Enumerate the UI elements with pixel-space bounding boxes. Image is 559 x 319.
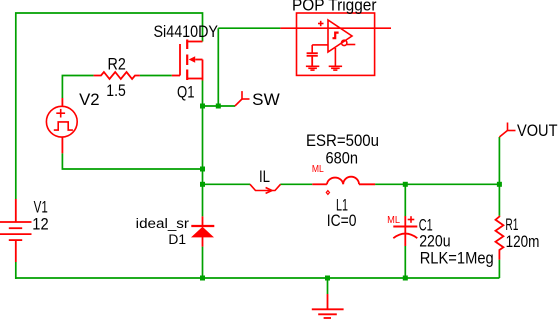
svg-text:ML: ML	[387, 215, 400, 226]
svg-text:ESR=500u: ESR=500u	[306, 131, 379, 150]
probe VOUT	[499, 123, 515, 138]
svg-text:120m: 120m	[506, 232, 540, 251]
wire diode bottom	[202, 247, 204, 278]
wire POP through line	[280, 27, 391, 29]
svg-text:ideal_sr: ideal_sr	[136, 216, 190, 232]
ground POP left	[306, 66, 319, 70]
node ground junction	[325, 276, 330, 281]
resistor R1	[496, 216, 504, 260]
voltage source V2	[46, 98, 77, 153]
ground POP comparator	[329, 48, 342, 70]
current probe IL	[250, 184, 281, 193]
node SW junction	[200, 104, 205, 109]
probe SW	[235, 91, 250, 106]
diode D1	[191, 216, 214, 246]
svg-text:1.5: 1.5	[106, 81, 126, 100]
wire V1 bottom to rail	[15, 262, 17, 279]
wire C1 bottom	[404, 246, 406, 278]
svg-text:ML: ML	[312, 164, 324, 175]
wire R1 bottom	[498, 260, 500, 278]
svg-text:V2: V2	[79, 90, 100, 109]
capacitor C1	[393, 216, 417, 246]
svg-text:IL: IL	[259, 167, 270, 186]
svg-text:R2: R2	[108, 54, 126, 73]
node C1 bottom junction	[403, 276, 408, 281]
node VOUT junction	[497, 182, 502, 187]
wire V2 bottom return	[62, 153, 202, 169]
wire top rail	[16, 13, 203, 199]
inductor L1	[312, 177, 375, 195]
svg-text:SW: SW	[252, 90, 280, 109]
node POP tap junction	[216, 104, 221, 109]
wire rail right	[375, 183, 499, 185]
wire C1 top	[404, 184, 406, 216]
node C1 top junction	[403, 182, 408, 187]
node diode bottom junction	[200, 276, 205, 281]
wire IL rail left	[203, 183, 251, 185]
svg-text:RLK=1Meg: RLK=1Meg	[420, 248, 494, 267]
transistor Q1	[172, 40, 203, 81]
svg-text:Q1: Q1	[177, 82, 195, 101]
op-amp U1 comparator	[312, 20, 355, 53]
wire Q1 source column down to diode	[202, 81, 204, 217]
svg-text:12: 12	[32, 215, 48, 234]
capacitor POP ref cell	[307, 53, 318, 66]
ground main	[312, 294, 344, 318]
node V2 return junction	[200, 167, 205, 172]
wire bottom rail	[16, 277, 500, 279]
svg-text:D1: D1	[168, 232, 186, 248]
node IL rail junction	[200, 182, 205, 187]
wire POP drop	[217, 28, 219, 106]
svg-text:VOUT: VOUT	[517, 121, 558, 140]
resistor R2	[94, 72, 140, 79]
op-amp POP trigger box	[297, 13, 375, 75]
battery V1	[0, 199, 32, 262]
svg-text:V1: V1	[34, 197, 48, 216]
svg-text:POP Trigger: POP Trigger	[292, 0, 377, 15]
wire VOUT column	[498, 137, 500, 216]
wire R2 to gate	[140, 75, 172, 77]
svg-text:680n: 680n	[326, 148, 359, 167]
svg-text:Si4410DY: Si4410DY	[154, 22, 219, 41]
wire rail mid	[280, 183, 312, 185]
wire V2 top to R2	[62, 76, 93, 99]
wire SW row	[203, 105, 236, 107]
svg-text:IC=0: IC=0	[327, 211, 357, 230]
wire POP input	[218, 27, 280, 29]
wire ground stem	[327, 278, 329, 294]
